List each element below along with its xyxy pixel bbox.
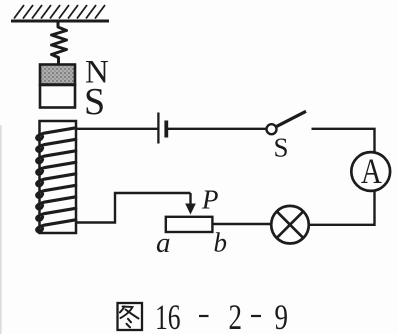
caption character 图 <box>118 303 143 330</box>
caption dash 1 <box>199 315 209 317</box>
svg-text:16: 16 <box>155 297 181 334</box>
svg-text:a: a <box>156 227 171 259</box>
battery short thick plate <box>164 121 168 138</box>
wire: coil top to battery <box>76 128 158 130</box>
battery long plate <box>157 113 159 144</box>
spring <box>52 22 67 65</box>
svg-text:S: S <box>84 81 105 123</box>
svg-text:P: P <box>201 185 219 215</box>
lamp circle <box>271 206 309 244</box>
lamp cross <box>277 212 303 238</box>
caption dash 2 <box>251 315 261 317</box>
coil core rectangle <box>40 121 77 233</box>
ceiling line <box>11 20 109 23</box>
wire: battery to switch <box>168 128 267 130</box>
ceiling hatching <box>14 5 105 19</box>
wire: coil bottom to wiper <box>76 193 191 223</box>
svg-text:b: b <box>214 228 228 258</box>
wire: lamp to rheostat <box>214 223 272 225</box>
magnet N pole (shaded) <box>40 65 75 85</box>
switch lever <box>276 111 306 126</box>
coil windings <box>37 128 76 232</box>
switch pivot circle <box>267 124 277 134</box>
wire: ammeter down and left to lamp <box>309 191 375 225</box>
magnet S pole <box>40 85 75 108</box>
scan streak artifact <box>0 125 2 334</box>
svg-text:9: 9 <box>275 297 288 334</box>
svg-text:A: A <box>361 152 382 192</box>
ammeter circle <box>351 152 390 191</box>
svg-text:2: 2 <box>229 297 242 334</box>
rheostat body <box>166 217 213 232</box>
wiper arrow P <box>185 193 196 215</box>
wire: switch to top-right corner, down to ammeter <box>312 129 375 153</box>
svg-text:S: S <box>274 133 289 163</box>
